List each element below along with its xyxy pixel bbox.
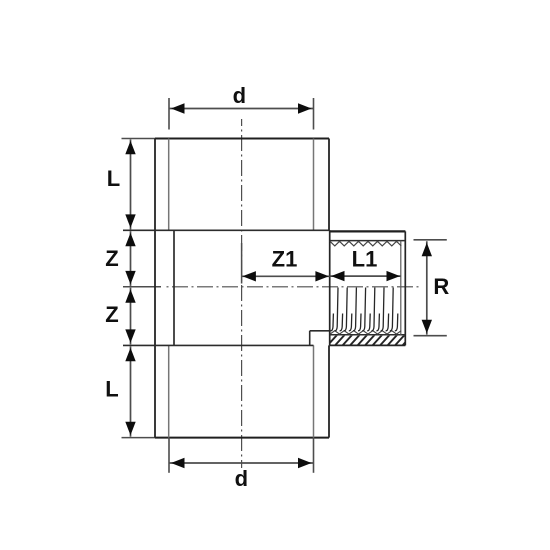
thread crest zigzag top xyxy=(330,241,401,246)
svg-text:d: d xyxy=(235,466,248,491)
svg-text:Z: Z xyxy=(105,302,118,327)
dimension d bottom: line xyxy=(169,462,314,464)
centerline horizontal (branch axis) xyxy=(165,286,419,288)
dimension Z lower: arrow up xyxy=(125,289,135,303)
witness line bottom-left xyxy=(122,437,156,439)
dimension Z1: arrow left xyxy=(242,271,256,281)
dimension d top: line xyxy=(169,108,314,110)
dimension d top: witness right xyxy=(313,98,315,130)
witness line top-left xyxy=(122,138,156,140)
socket inner wall top-right xyxy=(313,139,315,231)
left outer wall xyxy=(154,139,156,438)
lower shoulder line with witness extension xyxy=(123,344,314,346)
dimension Z upper: line xyxy=(130,231,132,286)
dimension L1: arrow left xyxy=(331,271,345,281)
dimension Z lower: arrow down xyxy=(125,329,135,343)
hatch band of branch bottom wall xyxy=(327,335,412,346)
body top edge xyxy=(155,138,329,140)
dimension d bottom: witness left xyxy=(168,438,170,473)
dimension L1: line xyxy=(330,275,401,277)
dimension L top: line xyxy=(130,139,132,229)
thread root line top xyxy=(330,240,406,242)
thread crest zigzag bottom xyxy=(330,331,401,334)
dimension R: arrow down xyxy=(422,320,432,334)
svg-text:Z: Z xyxy=(105,246,118,271)
svg-text:R: R xyxy=(433,274,449,299)
branch top outer edge xyxy=(329,230,405,232)
right outer wall lower segment xyxy=(328,345,330,437)
dimension R: witness bottom xyxy=(414,335,447,337)
socket inner wall bottom-left xyxy=(168,345,170,437)
dimension L bottom: arrow down xyxy=(125,422,135,436)
dimension Z1: witness at centerline xyxy=(241,243,243,284)
dimension R: arrow up xyxy=(422,243,432,256)
svg-text:Z1: Z1 xyxy=(272,246,298,271)
centerline vertical (main body axis) xyxy=(241,119,243,468)
right outer wall upper segment xyxy=(328,139,330,231)
dimension L bottom: line xyxy=(130,346,132,436)
dimension Z upper: arrow down xyxy=(125,271,135,285)
socket inner wall bottom-right xyxy=(313,345,315,437)
thread flank lines (section, lower half) xyxy=(330,288,397,331)
branch bottom outer edge xyxy=(330,344,406,346)
branch end face xyxy=(404,231,406,345)
dimension L bottom: arrow up xyxy=(125,348,135,362)
svg-text:L: L xyxy=(107,166,120,191)
dimension R: line xyxy=(426,241,428,334)
svg-text:L1: L1 xyxy=(352,246,378,271)
dimension Z upper: arrow up xyxy=(125,233,135,247)
dimension Z lower: line xyxy=(130,288,132,345)
dimension L top: arrow up xyxy=(125,141,135,155)
bore wall right below branch xyxy=(309,331,311,346)
socket inner wall top-left xyxy=(168,139,170,231)
thread root line bottom xyxy=(330,334,406,336)
svg-text:L: L xyxy=(105,377,118,402)
dimension Z1: line xyxy=(242,275,330,277)
dimension d bottom: arrow right xyxy=(298,458,312,468)
dimension d bottom: arrow left xyxy=(171,458,185,468)
svg-text:d: d xyxy=(233,83,246,108)
thread end boundary xyxy=(400,241,402,335)
dimension d top: arrow left xyxy=(171,103,185,113)
dimension R: witness top xyxy=(414,239,447,241)
step line below branch bore xyxy=(310,330,330,332)
dimension L1: arrow right xyxy=(387,271,401,281)
dimension L top: arrow down xyxy=(125,214,135,228)
thread start face xyxy=(329,230,331,345)
witness line at branch axis left xyxy=(123,286,161,288)
upper shoulder line with witness extension xyxy=(123,229,330,231)
bore wall left xyxy=(173,230,175,345)
body bottom edge xyxy=(155,437,329,439)
dimension Z1: arrow right xyxy=(315,271,329,281)
dimension d top: arrow right xyxy=(298,103,312,113)
dimension d top: witness left xyxy=(168,98,170,130)
dimension d bottom: witness right xyxy=(313,438,315,473)
